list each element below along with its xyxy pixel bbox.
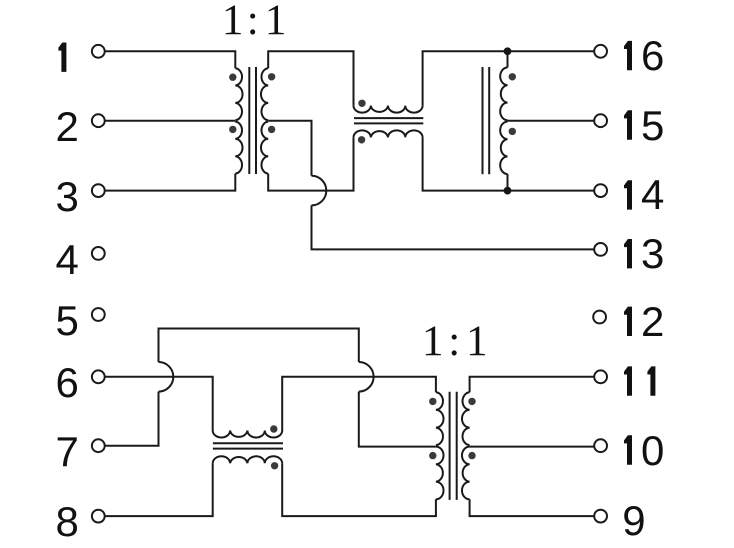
choke L1 winding A (top) [354, 106, 423, 113]
label pin 15 second digit [641, 105, 664, 147]
pin 1 terminal [92, 45, 105, 58]
transformer T1 polarity dot secondary lower [268, 126, 275, 133]
transformer T1 polarity dot primary lower [229, 126, 236, 133]
transformer T2 polarity dot lower [509, 128, 516, 135]
wire T4 secondary center tap to pin 10 [470, 446, 595, 448]
ratio label 1:1 for T4 colon [448, 320, 460, 363]
label pin 11 first digit 1 [624, 366, 632, 395]
wire T1 secondary center tap to pin 13 with hop [268, 121, 311, 176]
ratio label 1:1 for T4 digit a [422, 320, 444, 363]
choke L2 winding A (top) [213, 431, 283, 438]
ratio label 1:1 for T1 colon [247, 0, 259, 42]
label pin 4 [56, 239, 79, 281]
wire T2 center tap to pin 15 [508, 120, 595, 122]
transformer T1 primary winding upper [235, 68, 242, 120]
wire T2 winding bottom stub [507, 174, 509, 191]
label pin 13 first digit 1 [624, 239, 632, 268]
wire pin1 to T1 primary top [105, 51, 236, 68]
wire choke L1 B to pin 14 rail [423, 137, 595, 190]
wire choke L2 B to T4 primary bottom [282, 463, 436, 516]
transformer T2 polarity dot upper [509, 73, 516, 80]
pin 9 terminal [594, 510, 607, 523]
transformer T1 primary winding lower [235, 122, 242, 174]
transformer T2 winding lower [500, 122, 507, 174]
label pin 11 second digit 1 [647, 366, 655, 395]
label pin 5 [56, 300, 79, 342]
pin 15 terminal [594, 114, 607, 127]
pin 3 terminal [92, 184, 105, 197]
wire T2 winding top stub [507, 51, 509, 67]
label pin 12 second digit [641, 301, 664, 343]
label pin 14 first digit 1 [624, 180, 632, 209]
label pin 14 second digit [641, 174, 664, 216]
pin 13 terminal [594, 243, 607, 256]
choke L2 winding B (bottom) [213, 456, 283, 463]
transformer T2 core [482, 67, 484, 174]
label pin 16 second digit [641, 35, 664, 77]
label pin 1 digit [58, 43, 66, 72]
transformer T4 polarity dot secondary lower [468, 452, 475, 459]
label pin 7 [56, 431, 79, 473]
pin 11 terminal [594, 370, 607, 383]
label pin 16 first digit 1 [624, 41, 632, 70]
pin 8 terminal [92, 510, 105, 523]
wire pin3 to T1 primary bottom [105, 174, 236, 191]
wire pin8 to choke L2 winding B [105, 463, 213, 516]
transformer T2 winding upper [500, 68, 507, 121]
pin 5 terminal [92, 308, 105, 321]
wire T1 secondary top to choke L1 winding A [268, 51, 353, 105]
wire choke L1 A to pin 16 rail [423, 51, 595, 105]
pin 4 terminal [92, 247, 105, 260]
pin 10 terminal [594, 439, 607, 452]
label pin 8 [56, 501, 79, 543]
transformer T1 secondary winding lower [261, 122, 268, 174]
transformer T1 secondary winding upper [261, 68, 268, 120]
choke L1 polarity dot winding B [358, 136, 365, 143]
wire T1 secondary bottom to choke L1 winding B [268, 137, 353, 190]
junction node pin16 rail / T2 top [504, 47, 512, 55]
label pin 6 [56, 362, 79, 404]
transformer T1 polarity dot secondary upper [268, 73, 275, 80]
pin 12 terminal [593, 311, 606, 324]
label pin 10 second digit [641, 430, 664, 472]
ratio label 1:1 for T1 digit b [265, 0, 287, 42]
transformer T4 primary winding upper [436, 392, 444, 445]
wire choke L2 A to T4 primary top [282, 377, 436, 431]
transformer T4 secondary winding lower [462, 447, 470, 500]
choke L2 polarity dot winding B [271, 462, 278, 469]
transformer T4 polarity dot primary lower [429, 452, 436, 459]
transformer T4 primary winding lower [436, 447, 444, 500]
pin 16 terminal [594, 45, 607, 58]
choke L1 core [354, 117, 423, 119]
label pin 9 [622, 500, 645, 542]
ratio label 1:1 for T4 digit b [466, 320, 488, 363]
transformer T4 secondary winding upper [462, 392, 470, 445]
wire pin7 to T4 primary center tap with hops [105, 392, 159, 446]
transformer T4 core [449, 392, 451, 500]
pin 2 terminal [92, 114, 105, 127]
transformer T4 polarity dot primary upper [429, 398, 436, 405]
label pin 3 [56, 176, 79, 218]
wire T4 secondary top to pin 11 [470, 377, 595, 393]
choke L1 winding B (bottom) [354, 130, 423, 137]
junction node pin14 rail / T2 bottom [504, 187, 512, 195]
wire pin2 to T1 primary center tap [105, 120, 236, 122]
pin 14 terminal [594, 184, 607, 197]
ratio label 1:1 for T1 digit a [222, 0, 244, 42]
transformer T4 polarity dot secondary upper [468, 398, 475, 405]
label pin 10 first digit 1 [624, 435, 632, 464]
choke L2 core [213, 442, 283, 444]
pin 6 terminal [92, 370, 105, 383]
transformer T1 polarity dot primary upper [229, 74, 236, 81]
label pin 13 second digit [641, 233, 664, 275]
label pin 2 [56, 106, 79, 148]
label pin 15 first digit 1 [624, 110, 632, 139]
choke L2 polarity dot winding A [270, 425, 277, 432]
label pin 12 first digit 1 [624, 307, 632, 336]
choke L1 polarity dot winding A [358, 100, 365, 107]
pin 7 terminal [92, 439, 105, 452]
wire T4 secondary bottom to pin 9 [470, 499, 595, 516]
wire pin6 to choke L2 winding A [105, 377, 213, 431]
transformer T1 core [248, 67, 250, 174]
